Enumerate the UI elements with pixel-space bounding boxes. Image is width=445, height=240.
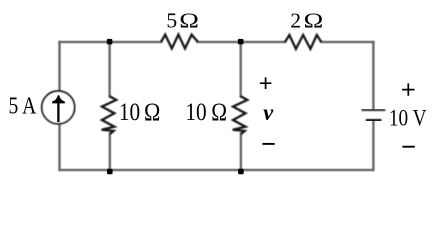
- svg-text:5: 5: [166, 9, 177, 33]
- svg-text:Ω: Ω: [304, 10, 324, 33]
- svg-text:5 A: 5 A: [9, 92, 37, 119]
- svg-text:v: v: [263, 100, 274, 126]
- svg-text:Ω: Ω: [144, 99, 160, 127]
- svg-text:Ω: Ω: [211, 98, 227, 126]
- svg-text:Ω: Ω: [179, 10, 199, 33]
- svg-text:10: 10: [185, 98, 206, 126]
- svg-text:10 V: 10 V: [389, 105, 427, 131]
- svg-text:2: 2: [290, 9, 301, 33]
- svg-text:10: 10: [119, 99, 140, 127]
